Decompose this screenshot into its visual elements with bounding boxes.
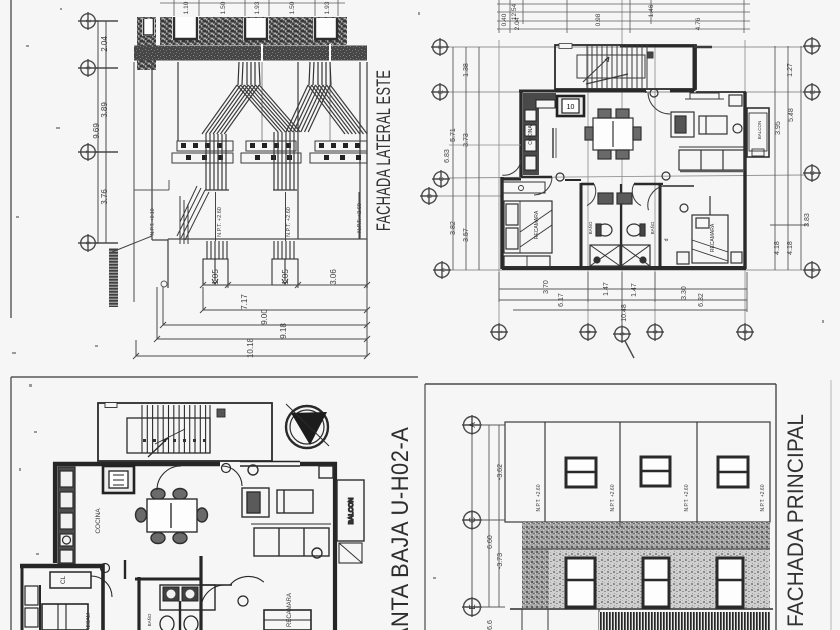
svg-text:RECAMARA: RECAMARA [534, 210, 540, 239]
svg-text:6.32: 6.32 [698, 293, 705, 307]
svg-text:1.93: 1.93 [254, 1, 261, 14]
svg-text:5.71: 5.71 [450, 128, 457, 142]
svg-text:A: A [468, 422, 477, 428]
svg-text:-3.73: -3.73 [497, 553, 504, 569]
svg-text:E: E [468, 604, 477, 609]
svg-text:COCINA: COCINA [528, 125, 534, 145]
svg-text:3.30: 3.30 [681, 286, 688, 300]
svg-text:0.40: 0.40 [501, 13, 508, 26]
svg-text:1.27: 1.27 [787, 63, 794, 77]
svg-text:9.18: 9.18 [279, 323, 288, 339]
svg-text:PLANTA BAJA U-H02-A: PLANTA BAJA U-H02-A [386, 427, 413, 630]
svg-text:6.60: 6.60 [487, 535, 494, 549]
svg-text:FACHADA LATERAL ESTE: FACHADA LATERAL ESTE [372, 70, 395, 231]
svg-text:3.06: 3.06 [329, 269, 338, 285]
svg-text:10.48: 10.48 [621, 304, 628, 322]
svg-text:7.17: 7.17 [240, 294, 249, 310]
svg-text:3.82: 3.82 [450, 221, 457, 235]
svg-text:BALCON: BALCON [757, 121, 762, 140]
svg-text:0.98: 0.98 [595, 13, 602, 26]
svg-text:FACHADA PRINCIPAL: FACHADA PRINCIPAL [783, 414, 808, 627]
svg-text:1.47: 1.47 [631, 283, 638, 297]
svg-text:1.05: 1.05 [281, 269, 290, 285]
svg-text:RECAMARA: RECAMARA [710, 223, 716, 252]
svg-text:3.95: 3.95 [775, 121, 782, 135]
svg-text:10.18: 10.18 [246, 337, 255, 358]
svg-text:N.P.T. +2.60: N.P.T. +2.60 [357, 203, 363, 233]
svg-text:9.69: 9.69 [92, 123, 101, 139]
svg-text:COCINA: COCINA [95, 508, 102, 534]
svg-text:RECAM: RECAM [86, 613, 92, 630]
svg-text:6.6: 6.6 [487, 620, 494, 630]
svg-text:10: 10 [567, 104, 575, 111]
svg-text:6.83: 6.83 [444, 149, 451, 163]
svg-text:1.47: 1.47 [603, 282, 610, 296]
svg-text:4.76: 4.76 [695, 17, 702, 30]
svg-text:3.70: 3.70 [543, 280, 550, 294]
svg-text:RECAMARA: RECAMARA [287, 593, 293, 627]
svg-text:BAÑO: BAÑO [146, 613, 152, 626]
svg-text:3.76: 3.76 [100, 189, 109, 205]
svg-text:BAÑO: BAÑO [587, 221, 593, 234]
svg-text:3.57: 3.57 [463, 228, 470, 242]
svg-text:4.18: 4.18 [787, 241, 794, 255]
svg-text:4.18: 4.18 [774, 241, 781, 255]
svg-text:C: C [468, 517, 477, 523]
svg-text:2.04: 2.04 [100, 36, 109, 52]
svg-text:CL: CL [60, 575, 67, 584]
svg-text:N.P.T. +2.60: N.P.T. +2.60 [610, 484, 616, 511]
svg-text:BALCON: BALCON [348, 497, 355, 524]
svg-text:9.00: 9.00 [260, 309, 269, 325]
svg-text:N.P.T. +2.60: N.P.T. +2.60 [217, 207, 223, 237]
svg-text:1.46: 1.46 [648, 4, 655, 17]
svg-text:N.P.T. +2.60: N.P.T. +2.60 [286, 207, 292, 237]
svg-text:BAÑO: BAÑO [649, 221, 655, 234]
svg-text:1.50: 1.50 [289, 1, 296, 14]
svg-text:N.P.T. +2.60: N.P.T. +2.60 [760, 484, 766, 511]
svg-text:1.38: 1.38 [463, 63, 470, 77]
svg-text:1.93: 1.93 [324, 1, 331, 14]
svg-text:d: d [664, 238, 670, 241]
svg-text:1.50: 1.50 [220, 1, 227, 14]
svg-text:1.05: 1.05 [211, 269, 220, 285]
svg-text:1.10: 1.10 [183, 1, 190, 14]
svg-text:3.83: 3.83 [804, 213, 811, 227]
svg-text:N.P.T. +0.10: N.P.T. +0.10 [150, 208, 156, 235]
svg-text:N.P.T. +2.60: N.P.T. +2.60 [536, 484, 542, 511]
svg-text:6.17: 6.17 [558, 293, 565, 307]
svg-text:-3.62: -3.62 [497, 464, 504, 480]
svg-text:3.89: 3.89 [100, 102, 109, 118]
svg-text:12.54: 12.54 [511, 3, 518, 20]
svg-text:N.P.T. +2.60: N.P.T. +2.60 [684, 484, 690, 511]
